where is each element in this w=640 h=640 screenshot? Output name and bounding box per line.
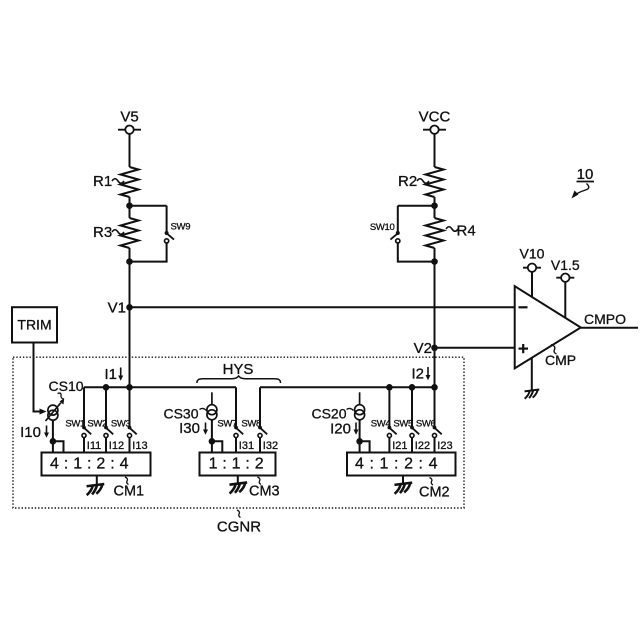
svg-text:CMP: CMP xyxy=(545,352,576,368)
net rail I1 xyxy=(84,386,236,388)
svg-text:4 : 1 : 2 : 4: 4 : 1 : 2 : 4 xyxy=(355,455,438,472)
value label R4 xyxy=(446,223,476,240)
wire SW10 top lead xyxy=(397,206,399,233)
label CM3 xyxy=(249,477,280,500)
wire comparator to ground xyxy=(531,358,533,390)
switch SW9 xyxy=(165,222,191,243)
svg-text:CM3: CM3 xyxy=(249,484,280,500)
label CMP xyxy=(545,345,576,369)
svg-text:I10: I10 xyxy=(20,424,41,441)
wire CM3 to ground xyxy=(237,476,239,484)
ground (comparator) xyxy=(525,389,540,398)
wire CM2 to ground xyxy=(402,476,404,484)
svg-text:10: 10 xyxy=(577,166,594,183)
label CM2 xyxy=(419,478,450,501)
resistor R4 xyxy=(426,218,444,248)
wire SW10 bottom lead xyxy=(398,243,435,262)
svg-text:SW5: SW5 xyxy=(393,419,413,430)
svg-text:I12: I12 xyxy=(109,440,124,452)
switch SW3 xyxy=(111,387,137,437)
node junction CM2 input xyxy=(356,438,363,445)
current label I10 xyxy=(20,424,49,441)
ground (CM2) xyxy=(394,483,412,494)
wire V10 to comparator xyxy=(531,272,533,297)
wire CM2 diode hook xyxy=(360,441,370,452)
power terminal VCC xyxy=(419,109,451,134)
svg-text:SW1: SW1 xyxy=(65,419,85,430)
dashed region CGNR xyxy=(13,357,464,508)
svg-text:SW7: SW7 xyxy=(217,419,237,430)
wire V5 to R1 xyxy=(129,134,131,167)
node junction CM3 input xyxy=(209,438,216,445)
node junction below R3 xyxy=(126,258,133,265)
power terminal V1.5 xyxy=(551,257,580,282)
current source CS30 xyxy=(207,392,217,420)
wire R4 to node V2 xyxy=(434,248,436,348)
current mirror block CM3 xyxy=(200,453,276,476)
svg-text:CMPO: CMPO xyxy=(584,311,626,327)
current label I20 xyxy=(330,421,358,438)
resistor R2 xyxy=(426,167,444,197)
node junction below R4 xyxy=(431,258,438,265)
wire V1 to comparator minus input xyxy=(130,306,515,308)
wire V1.5 to comparator xyxy=(564,282,566,318)
node junction rail-SW5 xyxy=(409,384,416,391)
svg-text:I11: I11 xyxy=(87,440,101,452)
wire SW8 to CM3 xyxy=(259,438,261,453)
wire V2 to comparator plus input xyxy=(435,347,515,349)
node junction CM1 input xyxy=(50,438,57,445)
value label R1 xyxy=(93,173,124,190)
current label I30 xyxy=(179,420,208,437)
node V2 xyxy=(414,340,438,357)
svg-text:SW8: SW8 xyxy=(241,419,261,430)
wire CS10 to CM1 input xyxy=(52,420,54,453)
switch SW5 xyxy=(393,387,419,437)
wire SW2 to CM1 xyxy=(105,438,107,453)
svg-text:CM2: CM2 xyxy=(419,485,450,501)
svg-text:V1: V1 xyxy=(108,300,126,317)
svg-text:V5: V5 xyxy=(120,109,138,126)
switch SW7 xyxy=(217,387,243,437)
wire SW6 to CM2 xyxy=(434,438,436,453)
svg-text:I20: I20 xyxy=(330,421,351,438)
svg-text:I1: I1 xyxy=(104,366,117,383)
op-amp comparator CMP xyxy=(515,286,581,368)
wire SW1 to CM1 xyxy=(83,438,85,453)
svg-text:V2: V2 xyxy=(414,340,432,357)
wire V2 down into CGNR xyxy=(434,348,436,388)
switch SW6 xyxy=(416,387,442,437)
svg-text:R2: R2 xyxy=(398,173,417,190)
wire SW9 bottom lead xyxy=(130,243,167,262)
switch SW4 xyxy=(371,387,397,437)
wire CS30 to CM3 input xyxy=(211,419,213,452)
block TRIM xyxy=(12,307,57,342)
node V1 xyxy=(108,300,133,317)
wire node to SW10 branch xyxy=(398,205,435,207)
svg-text:R1: R1 xyxy=(93,173,112,190)
svg-text:CM1: CM1 xyxy=(114,484,145,500)
svg-text:HYS: HYS xyxy=(223,361,254,378)
pin minus xyxy=(519,306,528,308)
resistor R1 xyxy=(121,167,139,197)
node junction above R4 xyxy=(431,202,438,209)
svg-text:SW10: SW10 xyxy=(370,222,395,233)
switch SW8 xyxy=(241,387,267,437)
switch SW10 xyxy=(370,222,400,243)
brace HYS xyxy=(197,376,281,383)
node junction rail-SW2 xyxy=(103,384,110,391)
svg-text:1 : 1 : 2: 1 : 1 : 2 xyxy=(209,455,264,472)
current label I1 xyxy=(104,366,123,383)
svg-text:SW4: SW4 xyxy=(371,419,391,430)
node junction above R3 xyxy=(126,202,133,209)
wire TRIM to CS10 arrow xyxy=(34,343,41,412)
wire CM3 diode hook xyxy=(212,441,222,452)
label CM1 xyxy=(114,477,145,500)
wire V1 down into CGNR xyxy=(129,307,131,387)
label CGNR xyxy=(217,510,261,536)
svg-text:SW6: SW6 xyxy=(416,419,436,430)
wire SW3 to CM1 xyxy=(129,438,131,453)
svg-text:I13: I13 xyxy=(132,440,147,452)
value label R2 xyxy=(398,173,429,190)
svg-text:I32: I32 xyxy=(263,440,278,452)
svg-text:SW3: SW3 xyxy=(111,419,131,430)
svg-text:VCC: VCC xyxy=(419,109,451,126)
wire CS20 to CM2 input xyxy=(359,419,361,452)
svg-text:I2: I2 xyxy=(411,366,424,383)
label CS10 xyxy=(49,378,84,399)
figure number 10 xyxy=(572,166,595,199)
label CS30 xyxy=(163,406,206,422)
svg-text:CS10: CS10 xyxy=(49,378,84,394)
switch SW2 xyxy=(87,387,113,437)
ground (CM1) xyxy=(87,484,105,495)
wire R3 to node V1 xyxy=(129,248,131,307)
svg-text:I23: I23 xyxy=(437,440,452,452)
value label R3 xyxy=(93,224,124,241)
wire node to SW9 branch top xyxy=(130,205,167,207)
node junction rail-V2 xyxy=(431,384,438,391)
wire SW5 to CM2 xyxy=(411,438,413,453)
svg-text:I31: I31 xyxy=(239,440,254,452)
wire R2 to node xyxy=(434,197,436,218)
svg-text:CGNR: CGNR xyxy=(217,519,261,536)
power terminal V5 xyxy=(118,109,141,134)
wire CM1 to ground xyxy=(96,476,98,485)
node junction rail-V1 xyxy=(126,384,133,391)
resistor R3 xyxy=(121,218,139,248)
svg-text:SW9: SW9 xyxy=(171,222,191,233)
wire SW4 to CM2 xyxy=(388,438,390,453)
svg-text:CS20: CS20 xyxy=(311,406,346,422)
svg-text:R3: R3 xyxy=(93,224,112,241)
current mirror block CM2 xyxy=(347,453,456,476)
svg-text:SW2: SW2 xyxy=(87,419,107,430)
net rail I2 xyxy=(260,386,435,388)
wire R1 to node xyxy=(129,197,131,218)
pin plus xyxy=(519,344,529,353)
power terminal V10 xyxy=(520,246,545,272)
label CS20 xyxy=(311,406,353,422)
svg-text:V1.5: V1.5 xyxy=(551,257,580,273)
svg-text:V10: V10 xyxy=(520,246,545,262)
current source CS20 xyxy=(355,392,365,420)
current source CS10 (adjustable) xyxy=(46,398,65,421)
wire CM1 diode hook xyxy=(53,441,64,452)
switch SW1 xyxy=(65,387,91,437)
svg-text:I30: I30 xyxy=(179,420,200,437)
wire VCC to R2 xyxy=(434,134,436,167)
current label I2 xyxy=(411,366,430,383)
svg-text:R4: R4 xyxy=(457,223,476,240)
arrow into CS10 xyxy=(40,409,47,415)
svg-text:I22: I22 xyxy=(415,440,430,452)
wire SW7 to CM3 xyxy=(235,438,237,453)
ground (CM3) xyxy=(229,482,247,493)
svg-text:TRIM: TRIM xyxy=(17,317,51,333)
wire comparator output CMPO xyxy=(581,327,638,329)
svg-text:4 : 1 : 2 : 4: 4 : 1 : 2 : 4 xyxy=(50,455,129,472)
wire SW9 top lead xyxy=(166,206,168,233)
current mirror block CM1 xyxy=(42,453,151,476)
node junction rail-SW4 xyxy=(386,384,393,391)
svg-text:I21: I21 xyxy=(392,440,407,452)
